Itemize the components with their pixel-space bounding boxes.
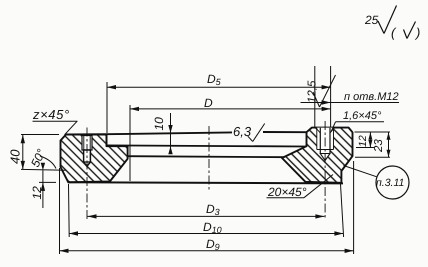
svg-text:п.3.11: п.3.11 bbox=[376, 177, 404, 189]
svg-text:): ) bbox=[414, 25, 420, 40]
svg-text:12: 12 bbox=[30, 186, 44, 200]
svg-text:10: 10 bbox=[152, 117, 166, 131]
svg-text:D10: D10 bbox=[203, 220, 222, 235]
svg-text:50°: 50° bbox=[28, 147, 48, 170]
svg-text:23: 23 bbox=[373, 139, 385, 153]
svg-text:D5: D5 bbox=[207, 72, 222, 87]
svg-text:12: 12 bbox=[357, 135, 369, 147]
svg-text:D9: D9 bbox=[206, 237, 220, 252]
svg-text:6,3: 6,3 bbox=[233, 124, 252, 139]
svg-text:20×45°: 20×45° bbox=[267, 185, 307, 199]
svg-text:D: D bbox=[204, 96, 213, 110]
svg-text:25: 25 bbox=[364, 13, 379, 27]
svg-text:z×45°: z×45° bbox=[32, 107, 70, 122]
svg-text:(: ( bbox=[391, 25, 397, 40]
svg-text:40: 40 bbox=[8, 149, 23, 164]
svg-text:D3: D3 bbox=[206, 202, 220, 217]
svg-text:п отв.М12: п отв.М12 bbox=[344, 91, 399, 103]
svg-text:1,6×45°: 1,6×45° bbox=[343, 110, 382, 122]
svg-text:12,5: 12,5 bbox=[307, 80, 319, 103]
